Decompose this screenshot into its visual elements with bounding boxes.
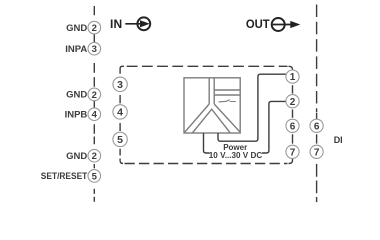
splitter leg outer-left: [185, 104, 210, 132]
terminal 7 (outer): [310, 145, 323, 158]
svg-text:SET/RESET: SET/RESET: [41, 171, 88, 182]
svg-text:6: 6: [290, 121, 296, 132]
dashed box right edge (through terminals 1,2,6,7): [292, 85, 294, 143]
svg-text:INPB: INPB: [65, 110, 88, 121]
svg-text:OUT: OUT: [246, 17, 270, 31]
node 4 (column 2): [113, 105, 127, 119]
svg-text:2: 2: [92, 23, 97, 34]
dashed box top edge: [120, 66, 292, 74]
svg-text:IN: IN: [110, 17, 122, 31]
terminal 2 (output): [286, 95, 299, 108]
node 5 (column 2): [113, 132, 127, 146]
svg-text:INPA: INPA: [65, 44, 87, 55]
svg-text:6: 6: [314, 121, 320, 132]
device block box: [184, 78, 240, 133]
compartment divider lines: [214, 90, 240, 95]
svg-text:DI: DI: [334, 135, 343, 145]
svg-text:7: 7: [290, 147, 296, 158]
svg-text:4: 4: [92, 110, 98, 121]
splitter channel (vertical): [209, 78, 214, 104]
dashed box bottom edge: [125, 159, 293, 164]
svg-text:4: 4: [117, 107, 123, 119]
svg-text:GND: GND: [66, 23, 87, 34]
svg-text:GND: GND: [66, 151, 87, 162]
left terminal dashed rail: [93, 6, 95, 202]
svg-text:2: 2: [290, 97, 296, 108]
terminal 3 INPA: [65, 42, 100, 55]
svg-text:1: 1: [290, 72, 296, 83]
outer right dashed rail: [316, 5, 318, 203]
switch symbol: [219, 100, 236, 102]
svg-text:7: 7: [314, 147, 320, 158]
svg-text:2: 2: [92, 90, 97, 101]
power label background: [210, 150, 263, 159]
svg-text:GND: GND: [66, 90, 87, 101]
terminal 1 (output): [286, 70, 299, 83]
svg-text:10 V...30 V DC: 10 V...30 V DC: [209, 150, 262, 160]
terminal 2 GND (middle): [66, 88, 100, 101]
svg-text:3: 3: [117, 79, 123, 91]
OUT symbol: [246, 17, 300, 31]
svg-text:3: 3: [92, 44, 97, 55]
splitter inner V: [192, 109, 230, 133]
terminal 7 (inner): [286, 145, 299, 158]
wire: block left stub to terminal 2: [204, 101, 286, 153]
terminal 6 (outer): [310, 119, 323, 132]
terminal 2 GND (top): [66, 21, 100, 34]
dashed box left edge (column 2): [120, 95, 123, 164]
node 3 (column 2): [113, 77, 127, 91]
wire: block right stub to terminal 1: [218, 74, 286, 141]
svg-text:2: 2: [92, 151, 97, 162]
terminal 6 (inner): [286, 119, 299, 132]
terminal 5 SET/RESET: [41, 170, 101, 183]
terminal 2 GND (bottom): [66, 149, 100, 162]
svg-text:5: 5: [117, 134, 123, 146]
IN symbol: [110, 17, 150, 31]
terminal 4 INPB: [65, 108, 101, 121]
svg-text:5: 5: [92, 171, 98, 182]
splitter leg outer-right: [214, 104, 240, 132]
